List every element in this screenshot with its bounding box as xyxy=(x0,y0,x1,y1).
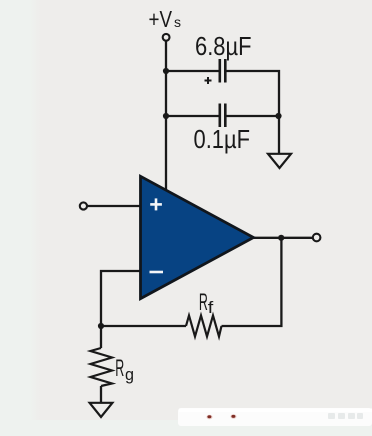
svg-text:R: R xyxy=(199,289,208,316)
wire: non-inverting input terminal to op-amp xyxy=(87,205,142,207)
wire: supply node to C2 left plate xyxy=(166,115,219,117)
wire: feedback node to Rf left lead xyxy=(101,325,186,327)
svg-text:6.8µF: 6.8µF xyxy=(195,31,252,61)
svg-text:s: s xyxy=(174,14,181,30)
wire: supply node to C1 left plate xyxy=(166,70,219,72)
wire: op-amp output to output terminal xyxy=(252,237,313,239)
svg-text:g: g xyxy=(125,365,134,384)
ground symbol (capacitor rail) xyxy=(268,154,291,168)
wire: right rail node down to ground xyxy=(278,116,280,153)
svg-text:f: f xyxy=(208,298,214,317)
terminal: signal input xyxy=(80,202,87,209)
wire: inverting input to feedback node xyxy=(101,271,142,326)
svg-text:R: R xyxy=(115,355,124,382)
terminal: output xyxy=(313,234,321,242)
resistor Rf zigzag xyxy=(186,316,222,337)
wire: +Vs supply down to op-amp positive supply pin xyxy=(165,41,167,196)
wire: Rf right lead up to output node xyxy=(222,238,282,326)
capacitor C1 6.8µF plates xyxy=(219,59,227,83)
label Rf xyxy=(199,289,214,317)
wire: C2 right plate to right rail node xyxy=(226,115,279,117)
op-amp U1 triangle xyxy=(141,176,254,298)
node: supply / C2 junction xyxy=(163,113,169,119)
ground symbol (Rg) xyxy=(90,403,113,417)
node: C2 / ground rail junction xyxy=(275,113,281,119)
svg-text:0.1µF: 0.1µF xyxy=(194,124,251,154)
op-amp minus input marker xyxy=(150,271,164,274)
terminal: +Vs xyxy=(163,34,170,41)
capacitor C2 0.1µF plates xyxy=(219,104,227,128)
resistor Rg zigzag xyxy=(91,348,113,386)
op-amp plus input marker xyxy=(150,198,162,210)
wire: C1 right plate to right vertical rail xyxy=(226,71,279,116)
node: output junction xyxy=(278,235,284,241)
label +Vs xyxy=(149,6,182,32)
watermark band xyxy=(178,408,372,426)
wire: Rg bottom lead to ground xyxy=(100,386,102,403)
node: supply / C1 junction xyxy=(163,68,169,74)
wire: feedback node down to Rg xyxy=(100,326,102,348)
label Rg xyxy=(115,355,134,384)
C1 polarity plus sign xyxy=(205,77,212,84)
node: feedback / Rg junction xyxy=(98,323,104,329)
svg-text:+V: +V xyxy=(149,6,173,32)
